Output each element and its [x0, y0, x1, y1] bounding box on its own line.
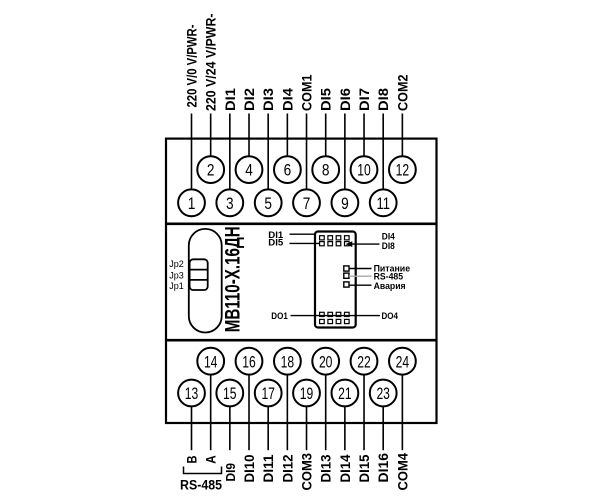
- wire from alarm LED to label: [349, 284, 372, 286]
- RS-485 status LED square: [344, 273, 349, 278]
- wire to terminal 12: [401, 114, 403, 157]
- terminal 24: [389, 348, 416, 375]
- indicator window box: [315, 232, 356, 328]
- svg-text:14: 14: [204, 352, 218, 371]
- terminal 14: [197, 348, 224, 375]
- svg-text:DI7: DI7: [356, 88, 372, 111]
- svg-text:3: 3: [226, 194, 234, 213]
- wire from indicator box to label DI8: [351, 243, 380, 245]
- svg-text:20: 20: [319, 352, 333, 371]
- svg-text:23: 23: [376, 384, 390, 403]
- wire from terminal 17: [267, 406, 269, 450]
- terminal 5: [255, 189, 282, 216]
- wire from terminal 18: [286, 375, 288, 451]
- wire from terminal 24: [401, 375, 403, 451]
- terminal 22: [351, 348, 378, 375]
- svg-text:Jp1: Jp1: [169, 281, 184, 291]
- svg-text:DI11: DI11: [260, 454, 276, 482]
- svg-text:5: 5: [264, 194, 272, 213]
- svg-text:24: 24: [396, 352, 410, 371]
- power status LED square: [344, 266, 349, 271]
- svg-text:220 V/24 V/PWR-: 220 V/24 V/PWR-: [203, 13, 219, 111]
- svg-text:Авария: Авария: [374, 281, 406, 292]
- terminal 17: [255, 380, 282, 407]
- divider between upper terminal block and middle panel: [166, 223, 437, 226]
- wire to terminal 5: [267, 114, 269, 190]
- svg-text:DI5: DI5: [318, 88, 334, 111]
- svg-text:B: B: [184, 456, 200, 464]
- wire to terminal 6: [286, 114, 288, 157]
- svg-text:DI10: DI10: [241, 454, 257, 482]
- terminal 13: [178, 380, 205, 407]
- svg-text:2: 2: [207, 161, 215, 180]
- wire to terminal 4: [248, 114, 250, 157]
- terminal 4: [236, 156, 263, 183]
- DIP switch slot (capsule): [189, 229, 222, 333]
- wire from terminal 15: [229, 406, 231, 450]
- svg-text:DI13: DI13: [318, 454, 334, 482]
- device body outline: [166, 139, 437, 423]
- svg-text:DI6: DI6: [337, 88, 353, 111]
- svg-text:COM1: COM1: [299, 74, 315, 111]
- wire to terminal 9: [344, 114, 346, 190]
- svg-text:DI8: DI8: [382, 241, 395, 252]
- terminal 21: [332, 380, 359, 407]
- svg-text:22: 22: [357, 352, 371, 371]
- svg-text:DI5: DI5: [268, 238, 284, 249]
- terminal 16: [236, 348, 263, 375]
- svg-text:DI12: DI12: [279, 454, 295, 482]
- svg-text:17: 17: [261, 384, 275, 403]
- svg-text:COM3: COM3: [299, 453, 315, 491]
- svg-text:Jp3: Jp3: [169, 271, 184, 281]
- terminal 9: [332, 189, 359, 216]
- wire to terminal 1: [191, 114, 193, 190]
- svg-text:8: 8: [322, 161, 330, 180]
- svg-text:11: 11: [376, 194, 390, 213]
- jumper block Jp1-Jp3: [190, 259, 208, 290]
- terminal 18: [274, 348, 301, 375]
- svg-text:1: 1: [188, 194, 196, 213]
- svg-text:DO4: DO4: [382, 311, 399, 322]
- divider between middle panel and lower terminal block: [166, 339, 437, 342]
- wire from terminal 20: [325, 375, 327, 451]
- svg-text:RS-485: RS-485: [180, 477, 222, 492]
- terminal 3: [216, 189, 243, 216]
- terminal 7: [293, 189, 320, 216]
- wire from label DI1 to indicator box: [290, 233, 316, 235]
- wire to terminal 10: [363, 114, 365, 157]
- wire from terminal 19: [306, 406, 308, 450]
- svg-text:18: 18: [281, 352, 295, 371]
- wire from power LED to label: [349, 268, 372, 270]
- terminal 20: [312, 348, 339, 375]
- svg-text:6: 6: [284, 161, 292, 180]
- svg-text:21: 21: [338, 384, 352, 403]
- svg-text:4: 4: [245, 161, 253, 180]
- terminal 10: [351, 156, 378, 183]
- terminal 6: [274, 156, 301, 183]
- terminal 23: [370, 380, 397, 407]
- wire to terminal 8: [325, 114, 327, 157]
- svg-text:DI1: DI1: [222, 88, 238, 111]
- terminal 1: [178, 189, 205, 216]
- wire from terminal 23: [382, 406, 384, 450]
- svg-text:МВ110-Х.16ДН: МВ110-Х.16ДН: [222, 226, 245, 332]
- wire from terminal 21: [344, 406, 346, 450]
- svg-text:16: 16: [242, 352, 256, 371]
- svg-text:DO1: DO1: [271, 311, 288, 322]
- svg-text:9: 9: [341, 194, 349, 213]
- wire from terminal 13: [191, 406, 193, 450]
- svg-text:DI14: DI14: [337, 454, 353, 482]
- wire to terminal 7: [306, 114, 308, 190]
- svg-text:Jp2: Jp2: [169, 259, 184, 269]
- wire to terminal 3: [229, 114, 231, 190]
- svg-text:DI2: DI2: [241, 88, 257, 111]
- wire from label DI5 into indicator box: [290, 242, 320, 244]
- svg-text:10: 10: [357, 161, 371, 180]
- svg-text:12: 12: [396, 161, 410, 180]
- wire from terminal 14: [210, 375, 212, 451]
- wire from terminal 16: [248, 375, 250, 451]
- svg-text:DI4: DI4: [279, 88, 295, 111]
- svg-text:7: 7: [303, 194, 311, 213]
- arrowhead pointing to DI8 LED: [346, 241, 353, 247]
- svg-text:COM4: COM4: [394, 453, 410, 491]
- svg-text:15: 15: [223, 384, 237, 403]
- svg-text:DI16: DI16: [375, 453, 391, 483]
- alarm status LED square: [344, 282, 349, 287]
- wire from terminal 22: [363, 375, 365, 451]
- terminal 15: [216, 380, 243, 407]
- wire to terminal 11: [382, 114, 384, 190]
- svg-text:DI9: DI9: [224, 463, 238, 482]
- svg-text:220 V/0 V/PWR-: 220 V/0 V/PWR-: [184, 24, 200, 107]
- svg-text:13: 13: [185, 384, 199, 403]
- svg-text:A: A: [203, 455, 219, 464]
- terminal 2: [197, 156, 224, 183]
- wire from RS-485 LED to label (faint): [349, 275, 372, 277]
- svg-text:19: 19: [300, 384, 314, 403]
- wire from DO1 through indicator box to DO4: [291, 315, 381, 317]
- terminal 19: [293, 380, 320, 407]
- bracket grouping B and A wires: [184, 467, 222, 474]
- svg-text:DI15: DI15: [356, 454, 372, 482]
- terminal 8: [312, 156, 339, 183]
- wire to terminal 2: [210, 114, 212, 157]
- svg-text:COM2: COM2: [394, 74, 410, 111]
- terminal 12: [389, 156, 416, 183]
- output LEDs DO1-DO4 (2 rows of 4 squares): [320, 312, 350, 323]
- input LEDs DI1-DI8 (2 rows of 4 squares): [320, 236, 350, 246]
- svg-text:DI8: DI8: [375, 88, 391, 111]
- terminal 11: [370, 189, 397, 216]
- svg-text:DI3: DI3: [260, 88, 276, 111]
